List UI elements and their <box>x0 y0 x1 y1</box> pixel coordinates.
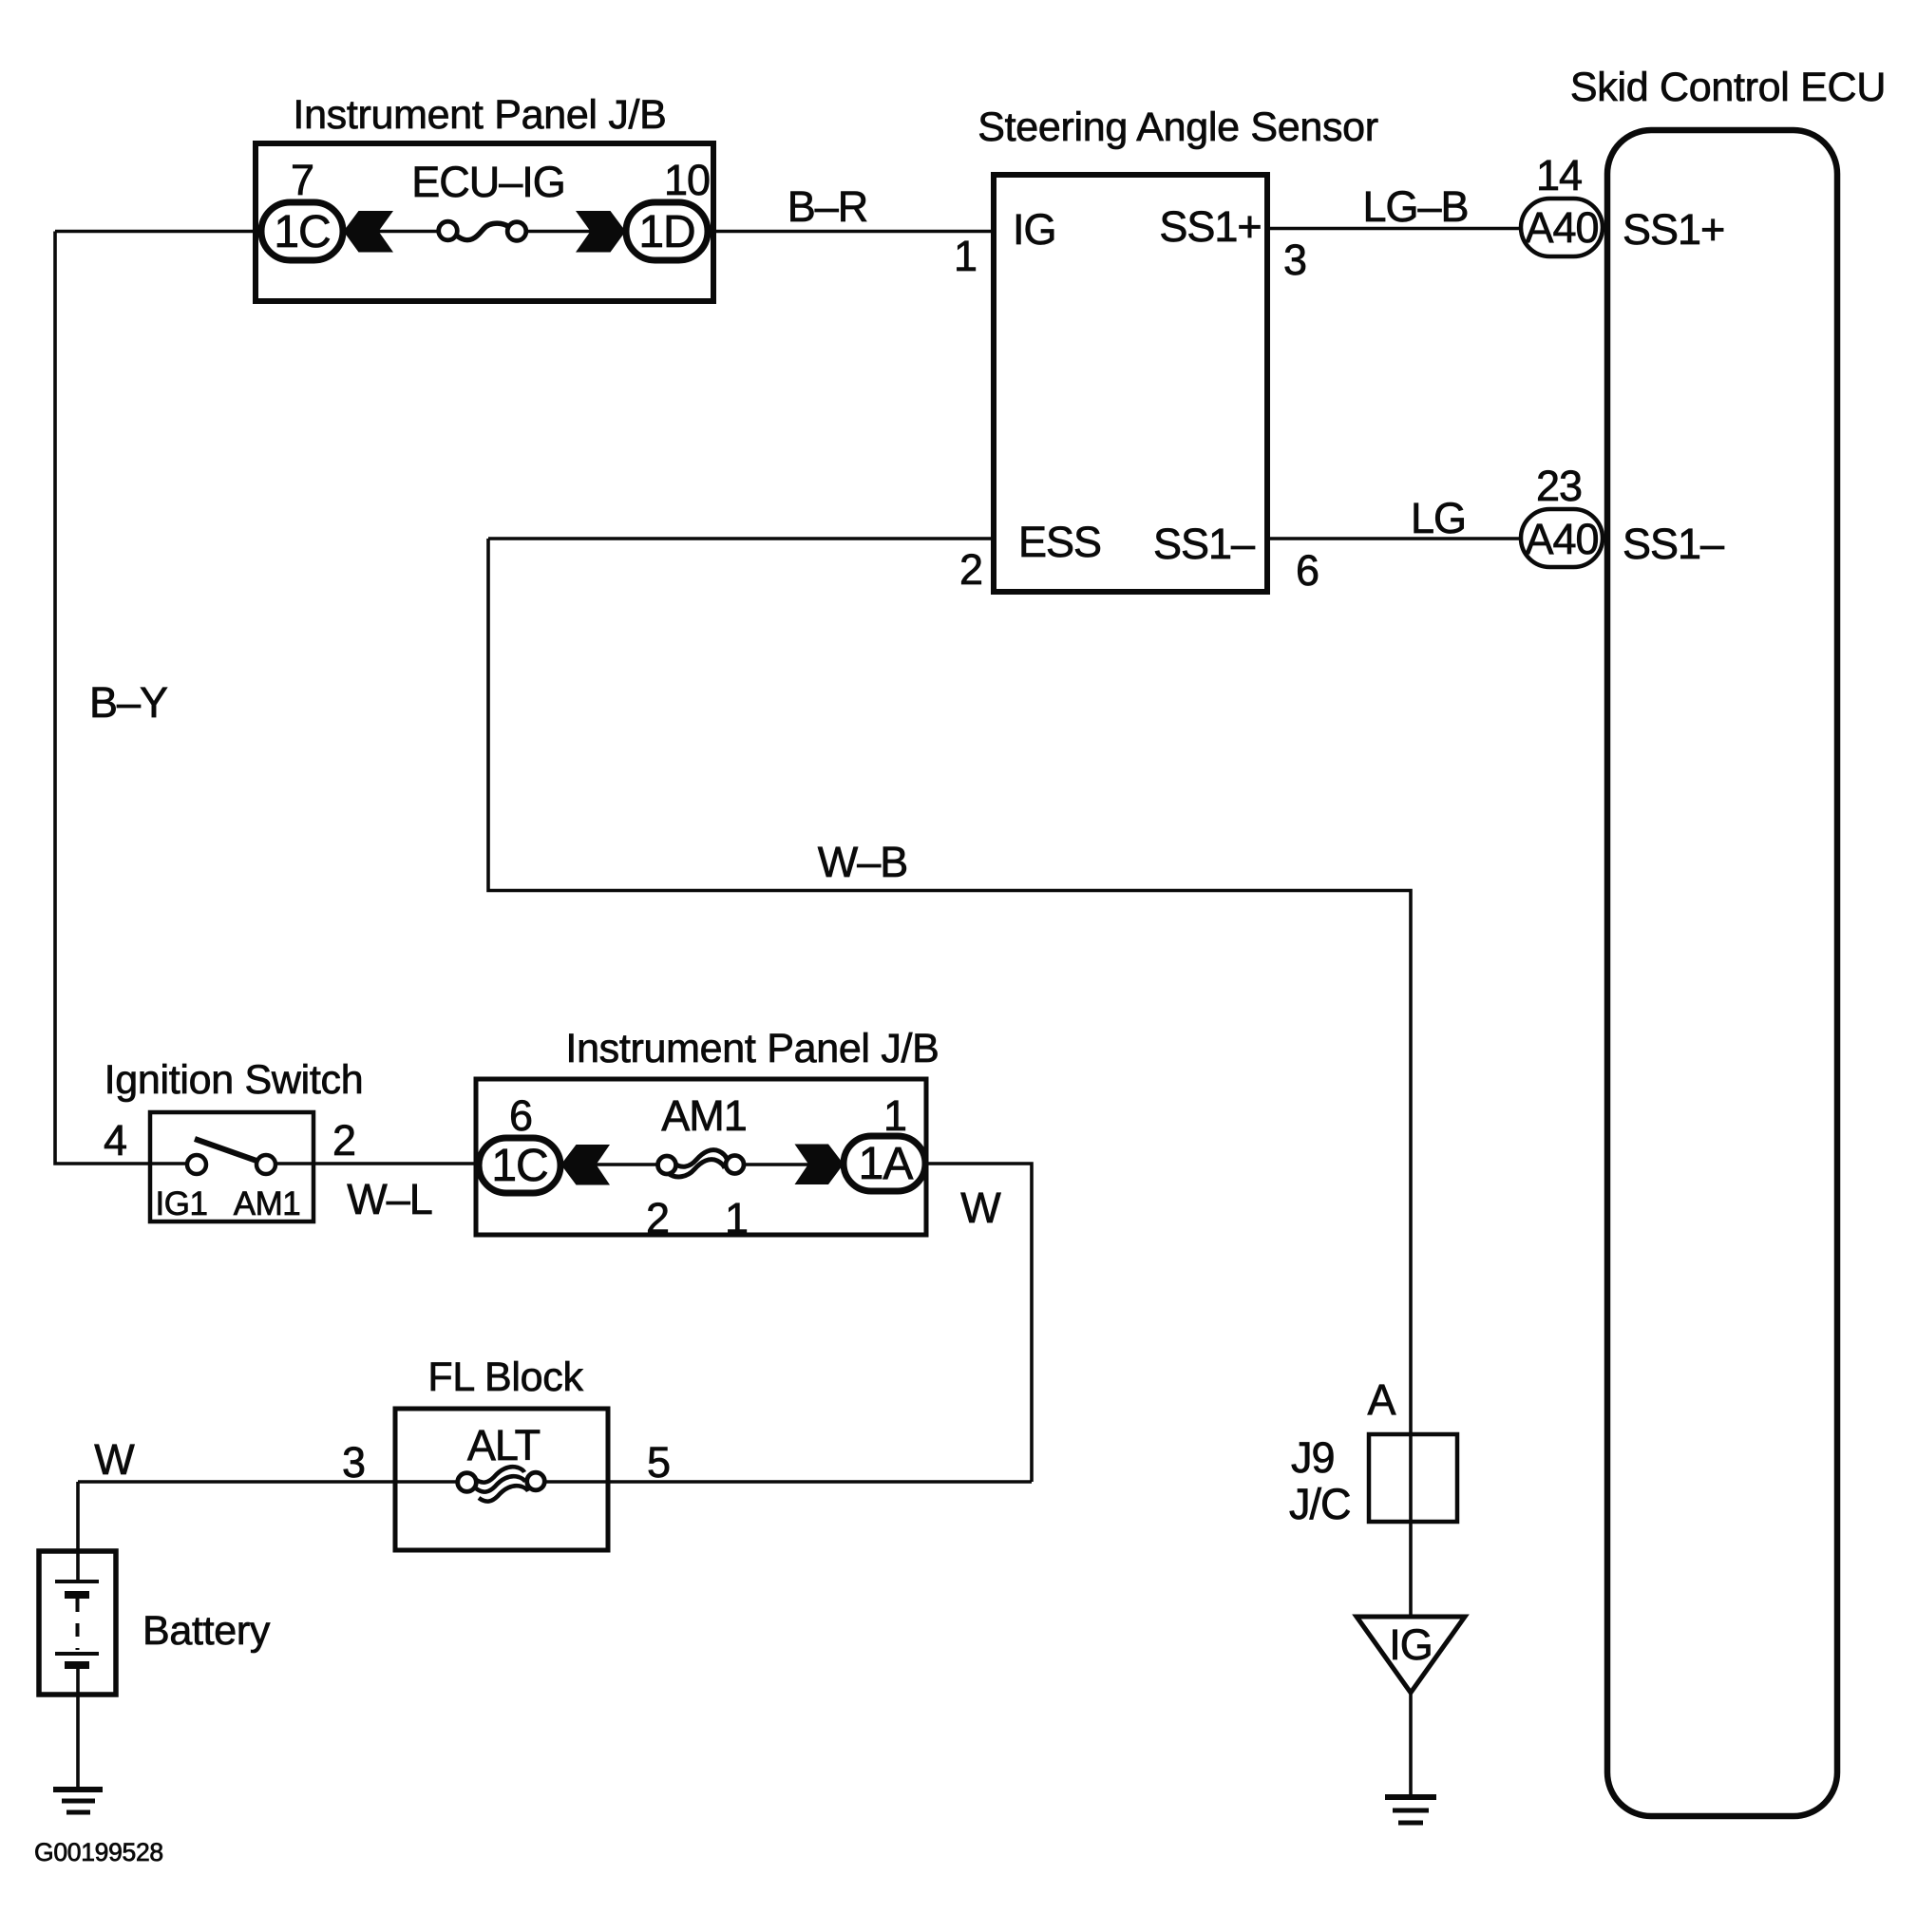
svg-text:1D: 1D <box>638 207 694 257</box>
svg-text:ALT: ALT <box>467 1421 541 1469</box>
svg-text:6: 6 <box>509 1091 532 1140</box>
svg-text:1C: 1C <box>274 207 330 257</box>
svg-text:2: 2 <box>646 1194 669 1242</box>
svg-text:SS1–: SS1– <box>1153 520 1255 568</box>
svg-text:IG: IG <box>1013 205 1056 254</box>
svg-text:IG1: IG1 <box>156 1185 208 1222</box>
svg-text:4: 4 <box>104 1116 126 1165</box>
svg-text:Instrument Panel J/B: Instrument Panel J/B <box>565 1026 939 1071</box>
svg-text:AM1: AM1 <box>234 1185 300 1222</box>
svg-text:A40: A40 <box>1525 515 1598 563</box>
svg-text:23: 23 <box>1536 462 1582 510</box>
svg-text:SS1+: SS1+ <box>1159 202 1261 251</box>
svg-text:2: 2 <box>959 545 982 594</box>
svg-text:W: W <box>960 1184 1001 1232</box>
svg-text:Skid Control ECU: Skid Control ECU <box>1570 65 1886 110</box>
svg-text:A: A <box>1367 1375 1395 1424</box>
svg-text:1: 1 <box>883 1091 906 1140</box>
svg-text:7: 7 <box>291 156 313 204</box>
svg-text:1C: 1C <box>491 1141 547 1191</box>
svg-text:2: 2 <box>332 1116 355 1165</box>
svg-text:SS1–: SS1– <box>1623 520 1724 568</box>
svg-text:ESS: ESS <box>1018 518 1101 566</box>
svg-text:W–L: W–L <box>347 1175 432 1223</box>
svg-text:1: 1 <box>954 232 977 280</box>
svg-text:6: 6 <box>1296 546 1319 595</box>
svg-text:3: 3 <box>1283 236 1306 284</box>
svg-text:Instrument Panel J/B: Instrument Panel J/B <box>293 92 666 138</box>
svg-text:14: 14 <box>1536 151 1582 199</box>
svg-text:B–R: B–R <box>788 182 868 231</box>
svg-text:IG: IG <box>1389 1620 1433 1669</box>
svg-text:G00199528: G00199528 <box>34 1838 163 1866</box>
svg-text:FL Block: FL Block <box>427 1354 583 1400</box>
svg-text:J9: J9 <box>1291 1433 1335 1482</box>
svg-text:AM1: AM1 <box>661 1091 747 1140</box>
svg-text:10: 10 <box>664 156 710 204</box>
svg-text:B–Y: B–Y <box>89 678 168 727</box>
svg-text:Battery: Battery <box>142 1608 271 1654</box>
svg-text:W: W <box>94 1435 135 1484</box>
svg-text:Steering Angle Sensor: Steering Angle Sensor <box>977 104 1378 150</box>
svg-text:SS1+: SS1+ <box>1623 205 1724 254</box>
svg-text:3: 3 <box>342 1438 365 1487</box>
svg-text:5: 5 <box>647 1438 670 1487</box>
svg-text:ECU–IG: ECU–IG <box>411 158 565 206</box>
svg-text:Ignition Switch: Ignition Switch <box>104 1057 364 1103</box>
svg-text:A40: A40 <box>1525 203 1598 252</box>
svg-text:J/C: J/C <box>1289 1480 1351 1528</box>
svg-text:LG: LG <box>1411 494 1466 542</box>
svg-text:W–B: W–B <box>818 838 908 886</box>
svg-text:1A: 1A <box>859 1139 914 1189</box>
svg-text:LG–B: LG–B <box>1362 182 1468 231</box>
svg-text:1: 1 <box>725 1194 748 1242</box>
